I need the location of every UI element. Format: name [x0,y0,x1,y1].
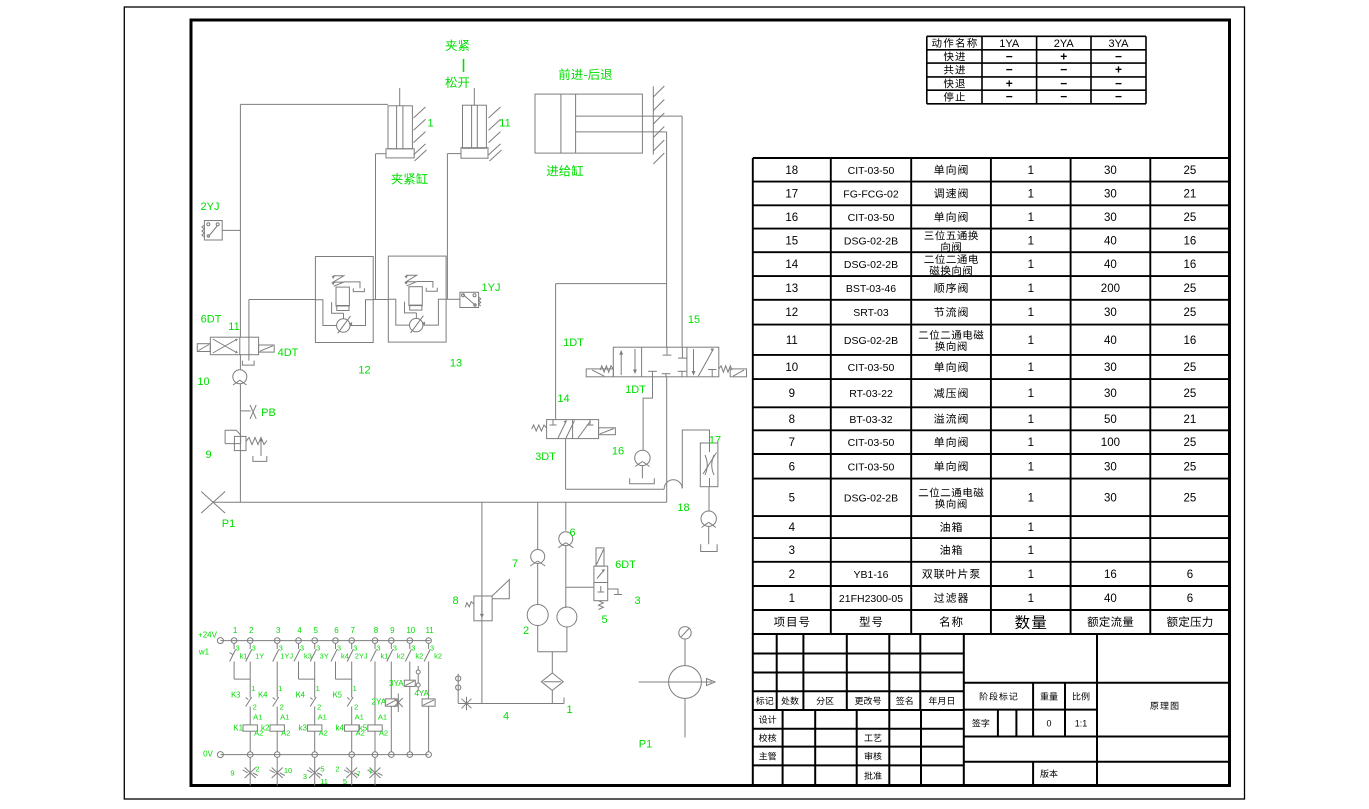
svg-text:SRT-03: SRT-03 [853,307,889,319]
svg-text:4: 4 [503,711,509,723]
svg-text:1: 1 [1028,437,1034,449]
flow control valve 12 box [315,257,373,343]
reducing valve 9 [225,430,241,443]
unloader valve 5 supply [566,586,594,588]
valve 13 pilot line [417,282,433,288]
feed cylinder wall hatches [653,86,664,97]
ladder top rail terminals [231,638,237,644]
svg-text:30: 30 [1104,307,1117,319]
svg-text:7: 7 [512,558,518,570]
svg-text:P1: P1 [222,518,235,530]
ladder solenoid 3YA [409,662,411,681]
svg-text:−: − [1060,90,1067,104]
ladder lamp columns below 0V [249,757,251,785]
clamp cylinder 11 body [463,105,487,148]
svg-text:A1: A1 [318,713,327,722]
ladder bottom rail terminals [247,752,253,758]
svg-text:−: − [1060,63,1067,77]
ladder branch rung6 to rung7 [335,662,337,680]
svg-text:2: 2 [249,626,254,635]
svg-text:10: 10 [197,376,209,388]
wire feed cylinder port A [653,115,682,117]
svg-text:6: 6 [569,527,575,539]
motor assembly [684,639,686,666]
svg-text:40: 40 [1104,235,1117,247]
valve 11 outlet to speed valves [248,300,250,338]
svg-text:BST-03-46: BST-03-46 [846,283,896,295]
svg-text:3Y: 3Y [320,652,329,661]
ladder relay coils K1-K5 [243,725,257,731]
svg-text:30: 30 [1104,362,1117,374]
svg-text:6DT: 6DT [615,559,636,571]
check valve 7 [531,550,545,564]
throttle valve 17 [700,443,718,487]
svg-text:8: 8 [452,595,458,607]
title block signature labels [759,715,776,723]
valve 15 left spring [600,366,613,372]
svg-text:21: 21 [1184,188,1197,200]
label separator bar [463,59,465,72]
svg-text:1YJ: 1YJ [280,652,293,661]
svg-text:40: 40 [1104,593,1117,605]
svg-text:1: 1 [233,626,238,635]
svg-text:16: 16 [1104,569,1117,581]
svg-text:k4: k4 [341,652,349,661]
svg-text:1YJ: 1YJ [482,282,501,294]
action row 停止 [944,92,965,102]
svg-text:DSG-02-2B: DSG-02-2B [844,492,898,504]
svg-text:2YJ: 2YJ [201,201,220,213]
wire riser below check10 [239,384,241,503]
pressure gauge [679,627,691,639]
svg-text:k2: k2 [397,652,405,661]
valve 15 right spring [719,366,732,372]
valve 14 solenoid [599,428,616,435]
pump 2b [557,607,577,627]
check valve 16 [635,450,650,465]
title block stage mark labels [980,692,1018,700]
svg-text:1: 1 [1028,335,1034,347]
svg-text:k3: k3 [298,724,307,733]
valve 14 lower wire [565,439,567,490]
svg-text:CIT-03-50: CIT-03-50 [848,165,895,177]
svg-text:2YA: 2YA [372,698,387,707]
wire cylinder11 to node [447,153,461,155]
svg-text:6: 6 [334,626,339,635]
svg-text:25: 25 [1184,307,1197,319]
relief valve 8 [474,596,492,621]
svg-text:17: 17 [709,435,721,447]
svg-text:−: − [1006,49,1013,63]
svg-text:1: 1 [1028,283,1034,295]
svg-text:−: − [1115,90,1122,104]
svg-text:k2: k2 [415,652,423,661]
wire cylinder1 to node [376,153,387,155]
valve 12 throttle circle [337,319,350,332]
svg-text:25: 25 [1184,492,1197,504]
svg-text:7: 7 [368,767,372,776]
svg-text:8: 8 [374,626,379,635]
svg-text:4DT: 4DT [278,347,299,359]
feed cylinder rod [576,115,654,117]
ladder lamp star rung9 [394,698,403,707]
svg-text:16: 16 [1184,235,1197,247]
svg-text:11: 11 [320,777,328,786]
feed cylinder body [535,94,642,153]
svg-text:1DT: 1DT [563,337,584,349]
ladder branch rung1 to rung2 [233,662,235,680]
svg-text:k4: k4 [335,724,344,733]
title block revision header labels [756,697,773,705]
svg-text:13: 13 [450,358,462,370]
limit switch 2YJ [204,221,222,241]
valve 15 left solenoid [586,369,613,377]
clamp cylinder 1 piston [386,149,414,158]
svg-text:6: 6 [1187,569,1193,581]
svg-text:25: 25 [1184,212,1197,224]
wire valve12 to valve13 [373,299,388,301]
valve 15 right solenoid [730,369,746,377]
pump 2a [527,605,548,626]
feed cylinder wall [652,86,654,154]
svg-text:w1: w1 [198,648,210,657]
wire check6 to pump2b [565,546,567,608]
clamp cylinder 1 body [388,106,412,149]
svg-text:11: 11 [786,335,798,347]
wire clamp rodside supply [240,103,388,105]
svg-text:+: + [1006,76,1013,90]
wire valve13 to 1YJ [446,298,460,300]
gauge point PB [240,410,250,412]
pump suction manifold [537,626,539,652]
valve 11 left solenoid [197,344,210,352]
action table header 动作名称 1YA 2YA 3YA [932,38,977,48]
clamp cylinder 11 piston [461,148,488,159]
parts table header row [774,617,809,627]
svg-text:2: 2 [255,765,259,774]
clamp cylinder 1 rod [399,88,401,106]
svg-text:12: 12 [358,365,370,377]
svg-text:1: 1 [789,593,795,605]
valve 13 relief spring [406,275,417,286]
valve 11 body [210,337,258,355]
label 进给缸 [547,165,584,177]
drawing name 原理图 [1150,702,1178,710]
svg-text:A1: A1 [355,713,364,722]
svg-text:RT-03-22: RT-03-22 [849,388,893,400]
valve 15 center cell blocked ports [666,347,668,355]
clamp cylinder 11 anchor hatches [489,107,501,118]
valve 5 drain [608,589,618,595]
svg-text:30: 30 [1104,388,1117,400]
svg-text:k3: k3 [304,652,312,661]
svg-text:1: 1 [1028,388,1034,400]
svg-text:k1: k1 [381,652,389,661]
action row 快退 [944,79,965,89]
svg-text:CIT-03-50: CIT-03-50 [848,437,895,449]
svg-text:+: + [1115,63,1122,77]
svg-text:16: 16 [1184,335,1197,347]
svg-text:PB: PB [261,407,276,419]
svg-text:11: 11 [228,321,239,333]
svg-text:1: 1 [566,704,572,716]
svg-text:12: 12 [785,307,798,319]
svg-text:25: 25 [1184,165,1197,177]
check valve 6 [559,532,573,546]
svg-text:1: 1 [1028,165,1034,177]
svg-text:9: 9 [390,626,395,635]
crossover arc [664,480,682,489]
svg-text:1: 1 [1028,414,1034,426]
wire main vertical P1 riser upper [239,104,241,337]
svg-text:10: 10 [406,626,415,635]
svg-text:4YA: 4YA [414,689,429,698]
suction strainer star [462,699,472,709]
valve 11 crossed arrows [213,339,238,353]
valve 15 left cell arrows [620,351,622,375]
svg-text:21: 21 [1184,414,1197,426]
svg-text:A2: A2 [319,729,328,738]
svg-text:1: 1 [1028,492,1034,504]
inner border frame [191,20,1230,786]
svg-text:DSG-02-2B: DSG-02-2B [844,335,898,347]
svg-text:16: 16 [612,446,624,458]
svg-text:9: 9 [230,769,234,778]
filter 1 [541,673,563,690]
valve 8 pilot [492,580,509,599]
valve 12 pilot line [344,282,360,288]
wire feed cylinder port B [653,131,666,133]
svg-text:−: − [1006,63,1013,77]
valve 13 compensator [409,287,422,306]
valve 11 drain tank [248,355,250,361]
svg-text:25: 25 [1184,388,1197,400]
svg-text:1: 1 [427,118,433,130]
ladder +24V rail [220,640,430,642]
svg-text:+: + [1060,49,1067,63]
valve 12 throttle loop [315,300,336,326]
ladder solenoid 4YA [428,662,430,699]
svg-text:1DT: 1DT [625,384,646,396]
svg-text:A1: A1 [253,713,262,722]
svg-text:3YA: 3YA [1109,38,1130,50]
valve 9 drain arrow [260,438,262,457]
svg-text:A2: A2 [281,729,290,738]
valve 15 right cell arrows [693,349,695,375]
suction line [458,703,564,705]
svg-text:+24V: +24V [198,631,218,640]
unloader valve 5 body [594,566,608,601]
svg-text:11: 11 [425,626,434,635]
svg-text:16: 16 [1184,259,1197,271]
svg-text:−: − [1115,76,1122,90]
svg-text:10: 10 [284,766,292,775]
svg-text:5: 5 [343,777,347,786]
valve 11 right cell wire [248,337,250,355]
svg-text:40: 40 [1104,335,1117,347]
svg-text:6: 6 [1187,593,1193,605]
wire valve15 port to check16 [643,377,652,450]
action row 共进 [944,65,965,75]
svg-text:1: 1 [278,684,282,693]
unloader valve 5 solenoid [596,548,604,566]
svg-text:1: 1 [1028,188,1034,200]
clamp cylinder 11 rod [473,88,475,105]
solenoid action table [927,36,1146,104]
svg-text:13: 13 [785,283,798,295]
svg-text:BT-03-32: BT-03-32 [849,414,892,426]
check16 drain tank [641,466,643,479]
svg-text:5: 5 [313,626,318,635]
svg-text:15: 15 [785,235,798,247]
svg-text:14: 14 [785,259,798,271]
svg-text:3: 3 [634,595,640,607]
relief valve 8 line [481,502,483,703]
svg-text:25: 25 [1184,461,1197,473]
svg-text:17: 17 [785,188,798,200]
svg-text:6DT: 6DT [201,314,222,326]
check18 tank [701,544,717,551]
valve 14 arrows [558,421,567,439]
svg-text:CIT-03-50: CIT-03-50 [848,362,895,374]
svg-text:YB1-16: YB1-16 [853,569,888,581]
svg-text:30: 30 [1104,461,1117,473]
svg-text:1: 1 [1028,569,1034,581]
ladder plug contacts [417,666,419,670]
svg-text:25: 25 [1184,283,1197,295]
title block outline [753,634,1230,786]
ladder branch rung4 to rung5 [298,662,300,680]
svg-text:1:1: 1:1 [1075,719,1088,729]
limit switch 1YJ [460,292,479,307]
feed cylinder piston [560,94,562,153]
svg-text:A2: A2 [379,729,388,738]
svg-text:25: 25 [1184,437,1197,449]
svg-text:2YJ: 2YJ [355,652,368,661]
flow control valve 13 box [388,256,446,342]
svg-text:1: 1 [1028,522,1034,534]
svg-text:1: 1 [1028,545,1034,557]
svg-text:CIT-03-50: CIT-03-50 [848,212,895,224]
svg-text:1: 1 [316,684,320,693]
svg-text:9: 9 [205,449,211,461]
label 松开 [445,77,469,89]
svg-text:14: 14 [557,393,569,405]
valve 13 throttle circle [410,318,423,331]
svg-text:2: 2 [523,625,529,637]
wire riser to check6 [565,502,567,530]
valve 14 port marks [552,420,554,425]
svg-text:3YA: 3YA [389,679,404,688]
label 前进-后退 [559,68,612,80]
svg-text:18: 18 [677,502,689,514]
svg-text:k2: k2 [434,652,442,661]
valve 12 compensator [336,287,349,306]
wire 2YJ to riser [222,229,240,231]
svg-text:30: 30 [1104,165,1117,177]
svg-text:6: 6 [789,461,795,473]
svg-text:3DT: 3DT [535,451,556,463]
wire to throttle 17 [682,430,709,488]
svg-text:CIT-03-50: CIT-03-50 [848,461,895,473]
svg-text:1: 1 [1028,235,1034,247]
svg-text:2: 2 [354,703,358,712]
valve 14 body [547,420,599,439]
svg-text:3: 3 [789,545,795,557]
svg-text:1: 1 [1028,307,1034,319]
valve 12 relief spring [333,276,344,287]
svg-text:DSG-02-2B: DSG-02-2B [844,235,898,247]
check valve 18 [708,487,710,512]
svg-text:DSG-02-2B: DSG-02-2B [844,259,898,271]
svg-text:3: 3 [303,772,307,781]
svg-text:3: 3 [276,626,281,635]
valve 11 right solenoid [259,345,275,352]
svg-text:FG-FCG-02: FG-FCG-02 [843,188,899,200]
svg-text:11: 11 [499,118,510,130]
svg-text:5: 5 [320,765,324,774]
svg-text:2: 2 [789,569,795,581]
svg-text:30: 30 [1104,188,1117,200]
svg-text:−: − [1060,76,1067,90]
svg-text:1: 1 [251,684,255,693]
svg-text:40: 40 [1104,259,1117,271]
action row 快进 [944,51,965,61]
svg-text:A1: A1 [378,713,387,722]
wire riser to check7 [537,502,539,549]
svg-text:100: 100 [1101,437,1120,449]
svg-text:1Y: 1Y [255,652,264,661]
svg-text:7: 7 [356,770,360,779]
ladder solenoid 2YA [390,662,392,699]
svg-text:4: 4 [789,522,796,534]
svg-text:10: 10 [785,362,798,374]
tank breather [457,674,459,704]
svg-text:4: 4 [297,626,302,635]
svg-text:1YA: 1YA [999,38,1020,50]
valve 13 throttle loop [388,299,409,325]
svg-text:7: 7 [350,626,355,635]
svg-text:25: 25 [1184,362,1197,374]
valve 14 spring [532,425,547,431]
svg-text:18: 18 [785,165,798,177]
svg-text:−: − [1115,49,1122,63]
svg-text:K1: K1 [233,724,243,733]
svg-text:0V: 0V [203,750,213,759]
svg-text:8: 8 [789,414,795,426]
valve 14 top wire [555,284,557,420]
valve 5 spring [599,601,604,610]
svg-text:0: 0 [1046,719,1051,729]
svg-text:2: 2 [253,703,257,712]
clamp cylinder 1 anchor hatches [414,107,426,118]
pump source P1 mark [201,492,225,514]
wire check7 to pump2a [537,564,539,605]
parts list table grid [753,158,1230,634]
svg-text:30: 30 [1104,212,1117,224]
svg-text:1: 1 [1028,212,1034,224]
svg-text:1: 1 [1028,461,1034,473]
svg-text:2: 2 [317,703,321,712]
svg-text:200: 200 [1101,283,1120,295]
svg-text:k2: k2 [261,724,270,733]
svg-text:1: 1 [1028,259,1034,271]
svg-text:50: 50 [1104,414,1117,426]
label 夹紧 [446,40,470,51]
ladder second level contacts [249,662,251,698]
svg-text:1: 1 [1028,593,1034,605]
svg-text:2: 2 [280,703,284,712]
